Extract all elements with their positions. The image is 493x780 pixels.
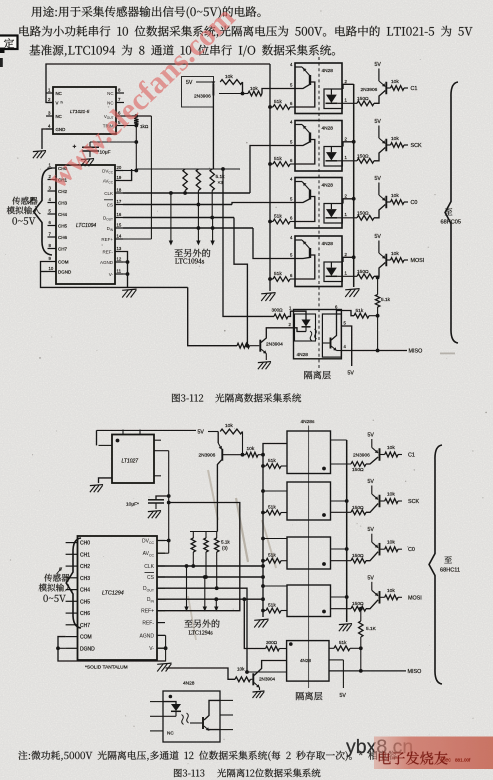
fig2 top rail <box>97 429 197 431</box>
brace to 68HC05 <box>445 82 458 343</box>
note line text <box>18 751 397 761</box>
fig2 sensor brace <box>66 538 81 628</box>
svg-text:150Ω: 150Ω <box>352 553 364 559</box>
fig2 resistor 10k stage 3 <box>380 548 385 550</box>
sensor input brace <box>34 168 53 255</box>
isolation layer label fig2 <box>296 692 322 700</box>
U4 COM DGND loop <box>58 637 166 661</box>
power switch enclosure box <box>182 77 214 108</box>
svg-text:REF+: REF+ <box>141 609 154 615</box>
opto5 LED inner box <box>295 314 316 341</box>
svg-text:5V: 5V <box>375 119 382 125</box>
fig2 stage 2 pin2 tap <box>331 500 347 502</box>
svg-text:V-: V- <box>109 272 114 277</box>
svg-text:150Ω: 150Ω <box>352 505 364 511</box>
svg-text:14: 14 <box>117 233 122 238</box>
svg-text:MISO: MISO <box>409 349 423 355</box>
svg-text:10k: 10k <box>391 193 399 199</box>
resistor 10k stage 3 output <box>387 201 391 203</box>
Q5 base ground return <box>166 668 235 679</box>
fig2 branch arrows to other ADCs <box>185 564 189 568</box>
branch CS to other ADCs <box>197 205 199 242</box>
resistor 150 stage 1 <box>357 101 374 106</box>
optocoupler 4N28 detail body <box>163 691 220 742</box>
wire U1 Vin to top rail <box>46 64 270 103</box>
opto2 phototransistor <box>309 133 311 143</box>
ground under capacitor <box>81 159 94 160</box>
svg-text:10k: 10k <box>387 540 395 546</box>
svg-text:5V: 5V <box>368 433 375 439</box>
svg-text:4N28: 4N28 <box>322 183 334 189</box>
opto4 phototransistor <box>309 248 311 258</box>
svg-text:10k: 10k <box>225 74 233 80</box>
detail pins right <box>220 699 233 701</box>
svg-text:12: 12 <box>117 256 122 261</box>
Q3 emitter ground <box>261 349 266 354</box>
svg-text:5V: 5V <box>375 62 382 68</box>
stage 1 collector wire <box>374 91 385 104</box>
svg-text:300Ω: 300Ω <box>266 640 278 645</box>
signal DOUT wire <box>123 217 234 219</box>
wire 10k to base node <box>242 82 244 94</box>
svg-text:5V: 5V <box>368 527 375 533</box>
svg-text:AGND: AGND <box>140 633 155 639</box>
svg-text:AGND: AGND <box>100 260 114 265</box>
U3 output vertical <box>168 451 170 554</box>
optocoupler 4N28 stage 3 body <box>295 178 342 229</box>
svg-text:CS: CS <box>147 575 155 581</box>
svg-text:CH0: CH0 <box>80 541 90 547</box>
resistor 5.1K fig2 <box>360 609 362 621</box>
margin smudge <box>440 353 455 355</box>
resistor 51k fig2 row 1 <box>261 464 265 468</box>
svg-text:300Ω: 300Ω <box>272 308 284 313</box>
svg-text:10k: 10k <box>387 492 395 498</box>
svg-text:150Ω: 150Ω <box>352 601 364 607</box>
svg-text:CLK: CLK <box>144 564 154 570</box>
svg-text:150Ω: 150Ω <box>357 96 369 102</box>
label to other LTC1294s <box>184 619 219 627</box>
U4 AGND V- ground <box>157 634 166 636</box>
resistor 5.1k pullup c <box>210 169 214 191</box>
U2 left pins 1-10 <box>48 167 57 169</box>
wire to MISO fig2 <box>360 648 362 671</box>
optocoupler stage 4 fig2 body <box>287 585 331 617</box>
svg-text:150Ω: 150Ω <box>357 153 369 159</box>
svg-text:CH3: CH3 <box>80 576 90 582</box>
Q3 collector to opto5 pin2 <box>261 328 294 343</box>
svg-text:COM: COM <box>80 635 92 641</box>
caption figure 3-112 <box>172 394 203 403</box>
detail LED <box>163 702 176 704</box>
svg-text:(3): (3) <box>222 546 228 551</box>
fig2 stage 1 collector wire <box>366 457 378 464</box>
wire CS jog to opto3 <box>232 203 295 205</box>
detail phototransistor <box>202 717 204 729</box>
opto4 inner LED box <box>324 262 342 282</box>
U1 left pins 1-4 <box>46 92 53 94</box>
svg-text:51k: 51k <box>268 458 276 464</box>
U4 CS overbar <box>145 572 155 574</box>
opto5 pin5 to 5V <box>341 326 351 366</box>
svg-text:5V: 5V <box>340 693 347 699</box>
wire REF+ to reference <box>123 238 151 240</box>
wire 5V node <box>208 431 218 433</box>
opto5 phototransistor box <box>322 314 341 357</box>
opto1 base loop <box>295 82 315 107</box>
svg-text:CH3: CH3 <box>58 200 67 205</box>
stage 4 collector wire <box>374 263 385 277</box>
ground LED return <box>345 289 359 290</box>
fig2 CS wire <box>157 576 263 578</box>
ground left bus <box>261 293 275 294</box>
svg-text:150Ω: 150Ω <box>357 210 369 216</box>
svg-text:LT1021-5: LT1021-5 <box>70 109 90 114</box>
fig2 DIN wire <box>157 598 263 600</box>
svg-text:4N28: 4N28 <box>322 68 334 74</box>
ADC U4 LTC1294 body <box>78 536 158 660</box>
svg-text:10k: 10k <box>250 86 258 92</box>
resistor 51k stage 3 <box>270 221 273 223</box>
fig2 DOUT wire <box>157 588 247 672</box>
label sensor analog input <box>12 197 37 205</box>
svg-text:COM: COM <box>58 259 69 264</box>
U1 right pins 8-5 <box>116 92 124 94</box>
svg-text:LT1027: LT1027 <box>122 459 139 465</box>
left margin ink blotch <box>0 48 5 54</box>
svg-text:16: 16 <box>117 212 122 217</box>
MISO output line <box>341 350 407 352</box>
svg-text:5V: 5V <box>375 234 382 240</box>
svg-text:REF+: REF+ <box>101 237 113 242</box>
wire DIN to 300 ohm <box>242 597 246 601</box>
svg-text:10k: 10k <box>247 446 255 452</box>
fig2 stage 4 collector wire <box>366 600 378 609</box>
fig2 resistor 150 stage 1 <box>351 462 366 467</box>
opto3 inner LED box <box>324 204 342 224</box>
svg-text:C0: C0 <box>411 200 418 206</box>
resistor 51k fig2 row 4 <box>261 609 265 613</box>
U3 left pins <box>99 444 113 446</box>
resistor 5.1k pullup b <box>196 169 200 191</box>
U4 right pins <box>157 540 165 542</box>
svg-text:V-: V- <box>149 646 154 652</box>
resistor 51k fig2 row 3 <box>261 559 265 563</box>
svg-text:2N3904: 2N3904 <box>259 677 276 682</box>
svg-text:5.1k: 5.1k <box>381 297 391 303</box>
document top paragraph <box>31 6 260 18</box>
svg-text:DGND: DGND <box>80 646 95 652</box>
svg-text:10k: 10k <box>391 251 399 257</box>
svg-text:51k: 51k <box>274 271 282 277</box>
svg-text:CH7: CH7 <box>80 623 90 629</box>
U3 right pins <box>154 439 161 441</box>
Q5 emitter ground <box>254 683 260 688</box>
optocoupler 4N28 stage 4 body <box>295 236 342 287</box>
fig2 stage 1 pin1 tap <box>331 463 352 465</box>
svg-text:5V: 5V <box>368 479 375 485</box>
svg-text:881.00f: 881.00f <box>455 758 471 763</box>
fig2 stage 2 pin1 tap <box>331 511 352 513</box>
svg-text:4N28: 4N28 <box>297 352 309 358</box>
resistor 51k fig2 row 2 <box>261 511 265 515</box>
svg-text:C1: C1 <box>411 86 418 92</box>
wire CLK jog to opto2 <box>250 146 295 194</box>
svg-text:68HC05: 68HC05 <box>441 220 462 226</box>
resistor 10k stage 2 output <box>387 144 391 146</box>
svg-text:CH4: CH4 <box>58 212 67 217</box>
wire base drive to opto1 phototransistor <box>262 89 295 94</box>
opto4 pin2 wire <box>343 257 354 262</box>
opto2 pin2 wire <box>343 142 354 147</box>
svg-text:10μF*: 10μF* <box>126 502 139 508</box>
scan streaks <box>236 498 248 562</box>
optocoupler stage 5 fig2 body <box>287 641 329 682</box>
wire U1 GND to ground <box>42 129 53 149</box>
svg-text:4N28: 4N28 <box>183 681 195 687</box>
ground under U2 <box>122 289 136 290</box>
svg-text:CH5: CH5 <box>58 223 67 228</box>
opto5 phototransistor <box>330 338 332 349</box>
fig2 stage 4 pin1 tap <box>331 608 352 610</box>
regulator U3 LT1027 body <box>112 435 154 484</box>
opto3 pin2 wire <box>343 199 354 204</box>
svg-text:1kΩ: 1kΩ <box>140 124 149 129</box>
ground under U1 <box>33 151 46 152</box>
resistor 150 stage 4 <box>357 274 374 279</box>
svg-text:LTC1294: LTC1294 <box>102 591 124 597</box>
svg-text:5.1k: 5.1k <box>221 540 230 545</box>
signal CLK wire <box>123 192 250 194</box>
svg-text:SCK: SCK <box>411 143 422 149</box>
fig2 5.1k pullups <box>192 532 194 539</box>
fig2 resistor 150 stage 2 <box>351 510 366 515</box>
svg-text:51k: 51k <box>268 505 276 511</box>
wire 5V to emitter <box>196 81 213 83</box>
resistor 150 stage 3 <box>357 215 374 220</box>
Q4 base node <box>223 454 246 456</box>
opto3 phototransistor <box>309 190 311 200</box>
fig2 resistor 10k stage 2 <box>380 500 385 502</box>
svg-text:NC: NC <box>56 114 62 119</box>
opto1 pin1 wire <box>337 102 357 104</box>
svg-text:NC: NC <box>56 91 62 96</box>
svg-text:5V: 5V <box>186 80 193 86</box>
U4 left pins <box>66 542 78 544</box>
svg-text:2N3906: 2N3906 <box>194 94 211 100</box>
resistor 51k stage 2 <box>270 163 273 165</box>
opto1 phototransistor <box>309 75 311 85</box>
wire to MISO line <box>377 316 379 351</box>
svg-text:LTC1294s: LTC1294s <box>189 631 214 637</box>
optocoupler stage 1 fig2 body <box>287 431 331 474</box>
fig2 CLK wire <box>157 565 263 567</box>
svg-text:5V: 5V <box>198 430 205 436</box>
resistor 10k base drive <box>243 93 249 95</box>
MISO line fig2 <box>329 670 406 672</box>
svg-text:10k: 10k <box>391 79 399 85</box>
capacitor 10uF <box>89 142 91 147</box>
fig2 LED return vertical <box>346 440 348 622</box>
resistor 10k fig2 base <box>246 452 258 457</box>
svg-text:11: 11 <box>117 268 122 273</box>
optocoupler 4N28 stage 1 body <box>295 63 342 114</box>
label to other LTC1094s <box>174 249 210 257</box>
isolation dashed line <box>318 57 320 368</box>
svg-text:10k: 10k <box>387 445 395 451</box>
resistor 10k stage 1 output <box>387 87 391 89</box>
caption figure 3-113 <box>174 769 204 777</box>
stage 3 collector wire <box>374 205 385 218</box>
signal CS wire <box>123 204 232 206</box>
opto5 pin6 to 51k <box>341 311 354 316</box>
svg-text:51k: 51k <box>268 553 276 559</box>
svg-text:NC: NC <box>167 731 174 736</box>
svg-text:51k: 51k <box>274 99 282 105</box>
Vcc rail to DVcc AVcc <box>136 168 240 170</box>
fig2 stage 3 pin1 tap <box>331 560 352 562</box>
svg-text:18: 18 <box>117 187 122 192</box>
fig2 stage 1 pin2 tap <box>331 439 347 441</box>
Q3 base wires <box>188 287 237 345</box>
svg-text:4N28: 4N28 <box>322 241 334 247</box>
resistor 10k stage 4 output <box>387 259 391 261</box>
svg-text:C1: C1 <box>408 453 415 459</box>
opto3 base loop <box>295 197 315 222</box>
svg-text:REF-: REF- <box>103 249 114 254</box>
svg-text:68HC11: 68HC11 <box>440 568 460 574</box>
fig2 resistor 150 stage 4 <box>351 606 366 611</box>
resistor 51k stage 4 <box>270 278 273 280</box>
svg-text:5V: 5V <box>368 575 375 581</box>
svg-text:GND: GND <box>56 127 66 132</box>
detail light arrows <box>182 715 184 725</box>
detail pins left <box>150 701 163 703</box>
opto4 pin1 wire <box>337 275 357 277</box>
resistor 300 ohm <box>274 314 288 319</box>
Q4 collector to pullup rail <box>217 460 221 532</box>
svg-text:150Ω: 150Ω <box>352 467 364 473</box>
opto2 LED <box>330 147 332 153</box>
svg-text:51k: 51k <box>274 156 282 162</box>
svg-text:10: 10 <box>49 266 54 271</box>
ADC U2 LTC1094 body <box>56 165 115 284</box>
wire DOUT to MISO driver <box>234 218 247 346</box>
wire Vout vertical to REF+ <box>150 116 152 239</box>
wire reference rail down to DVcc <box>135 142 137 171</box>
svg-text:4N28s: 4N28s <box>301 419 315 425</box>
svg-text:5.1K: 5.1K <box>366 626 377 632</box>
resistor 1k trim <box>134 118 138 125</box>
opto1 pin2 wire <box>343 84 354 89</box>
Q5 collector to opto6 <box>254 661 287 676</box>
opto4 LED <box>330 262 332 268</box>
U2 CS overbar <box>104 199 113 201</box>
branch DIN to other ADCs <box>211 226 215 230</box>
svg-text:51k: 51k <box>268 603 276 609</box>
svg-text:NC: NC <box>107 91 113 96</box>
svg-text:Elec: Elec <box>441 758 451 764</box>
fig2 resistor 150 stage 3 <box>351 558 366 563</box>
opto2 base loop <box>295 140 315 165</box>
svg-text:19: 19 <box>117 175 122 180</box>
svg-text:MOSI: MOSI <box>408 595 422 601</box>
fig2 left bus <box>263 444 287 618</box>
stage 2 collector wire <box>374 148 385 161</box>
resistor 150 stage 2 <box>357 158 374 163</box>
fig2 resistor 10k stage 4 <box>380 596 385 598</box>
opto1 LED <box>330 89 332 95</box>
fig2 label sensor analog input <box>44 574 69 582</box>
svg-text:5V: 5V <box>348 371 355 377</box>
wire U1 trim junction <box>124 125 136 127</box>
svg-text:150Ω: 150Ω <box>357 269 369 275</box>
wire U1 Vout node <box>124 115 151 117</box>
left margin stamp box 定 <box>0 36 18 50</box>
svg-text:4N28: 4N28 <box>322 126 334 132</box>
wire Vcc to 300 ohm <box>221 167 225 171</box>
svg-text:10k: 10k <box>387 588 395 594</box>
left common bus wire <box>269 64 271 291</box>
svg-text:CH4: CH4 <box>80 588 90 594</box>
capacitor 10uF fig2 <box>156 496 169 500</box>
svg-text:10k: 10k <box>237 667 245 672</box>
opto5 light arrows <box>310 331 312 341</box>
svg-text:CH1: CH1 <box>80 552 90 558</box>
wire DOUT to opto6 LED <box>247 671 287 673</box>
fig2 isolation center line <box>308 426 310 689</box>
opto3 pin1 wire <box>337 217 357 219</box>
fig2 stage 3 collector wire <box>366 552 378 561</box>
resistor 10k feedback <box>220 80 242 85</box>
svg-text:20: 20 <box>117 165 122 170</box>
wire DIN jog to opto4 <box>253 228 295 259</box>
svg-text:C0: C0 <box>408 547 415 553</box>
svg-text:13: 13 <box>117 246 122 251</box>
fig2 stage 4 pin2 tap <box>331 596 347 598</box>
fig2 bus taps <box>261 489 265 493</box>
wire reference to cap <box>90 141 136 143</box>
svg-text:10k: 10k <box>225 423 233 429</box>
svg-text:17: 17 <box>117 199 122 204</box>
svg-text:4N28: 4N28 <box>300 658 311 663</box>
U2 REF- AGND V- join wire <box>123 252 128 289</box>
svg-text:5.1k: 5.1k <box>216 174 226 180</box>
svg-text:10k: 10k <box>391 136 399 142</box>
fig2 stage 2 collector wire <box>366 504 378 513</box>
svg-text:CS: CS <box>107 202 113 207</box>
svg-text:15: 15 <box>117 222 122 227</box>
red watermark banner <box>0 0 1 1</box>
opto2 inner LED box <box>324 147 342 167</box>
svg-text:CH2: CH2 <box>80 564 90 570</box>
brace to 68HC11 <box>429 445 442 684</box>
resistor 51k stage 1 <box>270 106 273 108</box>
resistor 5.1k <box>377 278 379 295</box>
fig2 pullup rail <box>190 531 217 533</box>
U3 top pins <box>122 430 124 435</box>
opto3 LED <box>330 204 332 210</box>
fig2 opto5 pin 51k <box>329 647 334 649</box>
fig2 opto5 5V pin <box>329 659 343 661</box>
U2 COM DGND ground loop wire <box>41 262 188 288</box>
svg-text:CH6: CH6 <box>58 235 67 240</box>
isolation layer label fig1 <box>304 371 330 379</box>
fig2 stage 3 pin2 tap <box>331 548 347 550</box>
opto1 inner LED box <box>324 89 342 109</box>
svg-text:2N3906: 2N3906 <box>199 453 216 459</box>
svg-text:CH5: CH5 <box>80 599 90 605</box>
